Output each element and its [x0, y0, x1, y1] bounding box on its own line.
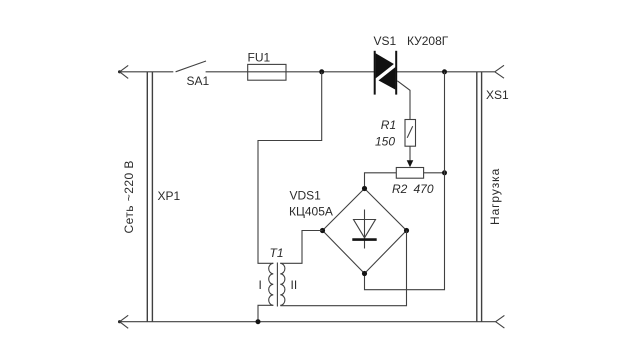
svg-text:150: 150: [375, 135, 395, 149]
wire top rail left segment: [120, 71, 174, 73]
connector XP1 double lines: [147, 72, 152, 322]
winding II (secondary): [280, 263, 285, 305]
node bridge right corner: [404, 228, 409, 233]
resistor R1: [405, 120, 416, 147]
wire R2 right: [424, 172, 445, 174]
connector XS1 double lines: [477, 72, 482, 322]
svg-text:II: II: [291, 278, 298, 292]
wire bridge right corner to winding II bottom: [280, 231, 406, 306]
wire R2 left to bridge top: [365, 173, 397, 189]
winding I (primary): [269, 263, 274, 305]
node XS1 pin bottom (fork): [496, 315, 505, 328]
core: [276, 263, 278, 307]
svg-text:FU1: FU1: [248, 51, 271, 65]
wire right vertical from top rail to bridge bottom: [365, 72, 445, 290]
svg-text:XP1: XP1: [158, 189, 181, 203]
diode bridge VDS1: [323, 189, 407, 274]
resistor R2 (potentiometer): [396, 168, 423, 179]
node bridge bottom corner: [362, 271, 367, 276]
node junction R2 right: [442, 170, 447, 175]
svg-text:VS1: VS1: [374, 34, 397, 48]
wire triac gate: [397, 81, 410, 120]
wire junction down to transformer primary: [258, 72, 322, 263]
node bridge left corner: [320, 228, 325, 233]
svg-text:Нагрузка: Нагрузка: [488, 168, 502, 225]
wire bridge left corner to winding II top: [280, 231, 322, 264]
node bridge top corner: [362, 186, 367, 191]
svg-text:XS1: XS1: [486, 88, 509, 102]
switch SA1: [176, 61, 206, 72]
fuse FU1: [248, 64, 286, 80]
svg-text:VDS1: VDS1: [290, 188, 322, 202]
wire bottom rail: [120, 321, 496, 323]
wire top rail right segment: [396, 71, 495, 73]
node XS1 pin top (fork): [495, 65, 504, 78]
svg-text:I: I: [259, 278, 262, 292]
node XP1 pin top (arrow): [118, 65, 128, 78]
wire R1 to R2 wiper: [409, 146, 411, 161]
svg-text:Сеть ~220 В: Сеть ~220 В: [122, 160, 136, 233]
svg-text:470: 470: [414, 182, 434, 196]
svg-text:T1: T1: [270, 246, 284, 260]
node junction top right: [442, 69, 447, 74]
svg-text:КУ208Г: КУ208Г: [407, 34, 449, 48]
svg-text:R2: R2: [392, 182, 408, 196]
node XP1 pin bottom (arrow): [118, 315, 128, 328]
wire switch to triac: [206, 71, 375, 73]
wire winding I bottom to bottom rail: [258, 305, 273, 321]
svg-text:КЦ405А: КЦ405А: [289, 205, 333, 219]
svg-text:SA1: SA1: [187, 74, 210, 88]
svg-text:R1: R1: [381, 118, 396, 132]
transformer T1: [269, 263, 285, 307]
node junction bottom rail: [256, 319, 261, 324]
transistor VS1 triac: [375, 51, 397, 95]
node junction after fuse: [319, 69, 324, 74]
